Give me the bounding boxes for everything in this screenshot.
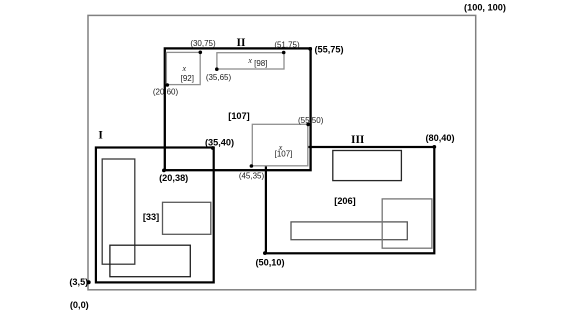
rectangle I (3,5)-(35,40)	[96, 148, 214, 283]
rectangle II (20,38)-(55,75)	[165, 48, 311, 170]
dot (45,35)	[250, 164, 254, 168]
svg-text:[92]: [92]	[181, 74, 194, 83]
dot (50,10)	[263, 251, 267, 255]
svg-text:(20,60): (20,60)	[153, 88, 179, 97]
svg-text:x: x	[182, 64, 187, 73]
svg-text:(30,75): (30,75)	[190, 39, 216, 48]
svg-text:(3,5): (3,5)	[69, 277, 88, 287]
svg-text:II: II	[237, 37, 246, 49]
dot (51,75)	[282, 51, 286, 55]
bottom rect inside I	[110, 245, 190, 277]
mid rect inside I (next to [33])	[163, 202, 211, 234]
svg-text:(35,65): (35,65)	[206, 73, 232, 82]
svg-text:(80,40): (80,40)	[425, 133, 454, 143]
svg-text:[206]: [206]	[334, 196, 355, 206]
rect [98] (35,65)-(51,75)	[217, 53, 284, 69]
dot (55,75)	[308, 47, 312, 51]
top rect inside III	[333, 151, 402, 181]
dot (35,40)	[211, 146, 215, 150]
outer frame (0,0)-(100,100)	[88, 15, 476, 289]
svg-text:x: x	[247, 56, 252, 65]
rectangle III (50,10)-(80,40)	[266, 147, 434, 253]
svg-text:(55,75): (55,75)	[314, 44, 343, 54]
svg-text:(35,40): (35,40)	[205, 138, 234, 148]
svg-text:[107]: [107]	[228, 111, 249, 121]
dot (3,5)	[87, 280, 91, 284]
dot (55,50)	[306, 123, 310, 127]
dot (30,75)	[199, 51, 203, 55]
svg-text:(50,10): (50,10)	[255, 258, 284, 268]
dot (80,40)	[432, 145, 436, 149]
long rect inside III	[291, 222, 407, 240]
svg-text:[33]: [33]	[143, 212, 159, 222]
dot (20,60)	[166, 83, 170, 87]
rect [92] (20,60)-(30,75)	[166, 52, 200, 84]
svg-text:(100, 100): (100, 100)	[464, 3, 506, 13]
svg-text:(51,75): (51,75)	[274, 40, 300, 49]
svg-text:(20,38): (20,38)	[159, 173, 188, 183]
svg-text:(55,50): (55,50)	[298, 116, 324, 125]
dot (35,65)	[215, 67, 219, 71]
svg-text:(45,35): (45,35)	[239, 171, 265, 180]
svg-text:I: I	[98, 130, 103, 142]
dot (20,38)	[162, 169, 166, 173]
svg-text:III: III	[351, 134, 365, 146]
square rect inside III	[382, 199, 432, 248]
svg-text:(0,0): (0,0)	[70, 300, 89, 310]
svg-text:[107]: [107]	[275, 149, 293, 158]
svg-text:[98]: [98]	[254, 59, 267, 68]
tall rect inside I	[102, 159, 135, 264]
rect [107] (45,35)-(55,50)	[252, 124, 307, 166]
